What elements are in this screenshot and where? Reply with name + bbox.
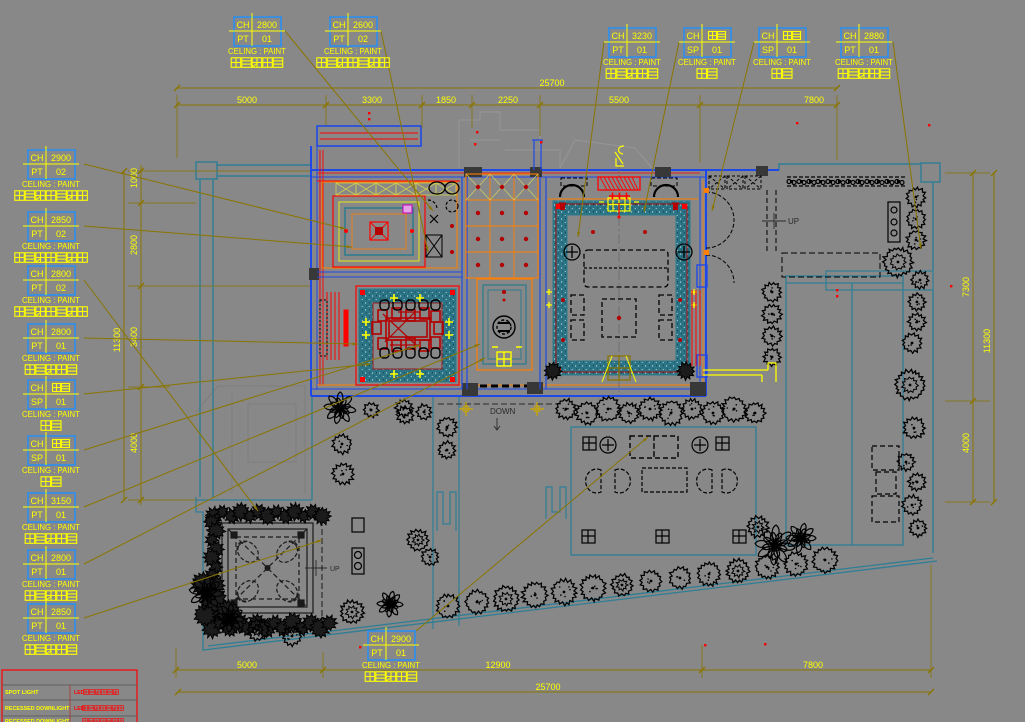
svg-text:7800: 7800 <box>804 95 824 105</box>
callout left5 CHslope <box>22 376 80 430</box>
svg-text:SP: SP <box>31 397 43 407</box>
dining dotted column <box>320 300 327 356</box>
svg-text:02: 02 <box>56 283 66 293</box>
svg-text:3150: 3150 <box>51 496 71 506</box>
callout left7 CH3150 <box>22 489 80 543</box>
interior wall foyer-left <box>462 177 467 389</box>
leader b1 <box>416 437 648 631</box>
svg-text:3300: 3300 <box>362 95 382 105</box>
svg-text:CH: CH <box>31 269 44 279</box>
callout CH2600 top2 <box>317 13 390 67</box>
foyer ceiling grid <box>466 174 538 278</box>
svg-text:01: 01 <box>56 453 66 463</box>
callout CH-slope top4 <box>678 24 736 78</box>
svg-text:UP: UP <box>788 217 799 226</box>
pavilion planter blocks <box>352 518 364 574</box>
garden corner big trees <box>189 576 403 647</box>
dimension top overall 25700 <box>174 78 840 91</box>
living room chandelier yellow <box>599 198 639 211</box>
small square room red dots <box>502 290 506 302</box>
svg-text:01: 01 <box>56 621 66 631</box>
dimension bottom overall 25700 <box>175 682 934 695</box>
svg-text:01: 01 <box>262 34 272 44</box>
callout left6 CHslope <box>22 432 80 486</box>
svg-text:CH: CH <box>371 634 384 644</box>
svg-text:PT: PT <box>31 283 43 293</box>
living room centerline dash-dot <box>618 162 620 392</box>
foyer grid light dots <box>476 185 528 267</box>
svg-text:01: 01 <box>56 510 66 520</box>
right hedge tree column lower <box>895 293 927 538</box>
big leaf tree top-right of lower building <box>755 523 816 565</box>
terrace big tree cluster <box>883 248 929 290</box>
svg-text:RECESSED DOWNLIGHT: RECESSED DOWNLIGHT <box>5 706 70 712</box>
dimension right overall 11300 <box>982 170 997 505</box>
svg-text:CH: CH <box>237 20 250 30</box>
svg-text:SP: SP <box>762 45 774 55</box>
dimension right chain <box>945 170 990 505</box>
courtyard walkway vertical lines <box>433 396 459 629</box>
dimension top chain <box>174 95 840 162</box>
leader t4 <box>644 42 679 212</box>
room A magenta marker <box>403 205 412 213</box>
stairs red lines right of living <box>692 290 700 366</box>
patio furniture middle <box>586 468 738 493</box>
svg-text:2850: 2850 <box>51 215 71 225</box>
room A ceiling decor <box>322 182 457 268</box>
svg-text:CELING : PAINT: CELING : PAINT <box>22 296 80 305</box>
svg-text:CH: CH <box>333 20 346 30</box>
svg-text:11300: 11300 <box>982 329 992 353</box>
svg-text:01: 01 <box>396 648 406 658</box>
svg-text:02: 02 <box>56 229 66 239</box>
svg-text:PT: PT <box>31 510 43 520</box>
svg-text:2800: 2800 <box>257 20 277 30</box>
building top bump <box>317 126 421 146</box>
svg-text:UP: UP <box>330 566 340 573</box>
svg-text:PT: PT <box>612 45 624 55</box>
svg-text:CH: CH <box>612 31 625 41</box>
dining table set <box>372 308 443 351</box>
foyer top X hatch cells <box>466 174 538 200</box>
living room planter pots <box>544 362 694 381</box>
living room entry marks <box>602 356 636 382</box>
callout left3 CH2800 <box>15 262 88 316</box>
svg-text:CELING : PAINT: CELING : PAINT <box>22 410 80 419</box>
terrace dashed path <box>782 253 880 277</box>
svg-text:CELING : PAINT: CELING : PAINT <box>603 58 661 67</box>
dimension left chain <box>128 165 310 505</box>
interior wall roomA-dining <box>317 272 462 277</box>
svg-text:2800: 2800 <box>51 269 71 279</box>
pavilion chairs <box>233 537 302 606</box>
svg-text:12900: 12900 <box>485 660 510 670</box>
callout left9 CH2850 <box>22 600 80 654</box>
living room red cross cluster under fireplace <box>609 193 630 219</box>
svg-text:PT: PT <box>237 34 249 44</box>
lower-right building outline <box>786 276 903 545</box>
faint neighbour outline upper-left steps <box>459 112 652 168</box>
dining room teal band <box>356 286 459 385</box>
lower-right building dashed squares <box>872 446 899 522</box>
svg-text:7800: 7800 <box>803 660 823 670</box>
svg-text:01: 01 <box>869 45 879 55</box>
site porch double wall top-left <box>196 162 311 497</box>
centerline CL symbol <box>615 146 624 166</box>
svg-text:CH: CH <box>687 31 700 41</box>
dimension left overall 11300 <box>112 168 127 503</box>
patio rectangle <box>571 427 756 555</box>
svg-text:01: 01 <box>56 567 66 577</box>
svg-text:CH: CH <box>31 327 44 337</box>
callout left2 CH2850 <box>15 208 88 262</box>
svg-text:PT: PT <box>31 341 43 351</box>
svg-text:02: 02 <box>56 167 66 177</box>
living room red dots <box>561 230 682 342</box>
corridor light dots left of foyer <box>450 224 454 254</box>
svg-text:CELING : PAINT: CELING : PAINT <box>362 661 420 670</box>
svg-text:CH: CH <box>31 153 44 163</box>
room A right X panels <box>426 235 442 257</box>
callout CH2800 top1 <box>228 13 286 67</box>
leader c1 <box>84 164 346 229</box>
garden corner dark shrub masses <box>191 572 241 626</box>
leader c9 <box>84 540 322 618</box>
svg-text:CH: CH <box>31 383 44 393</box>
callout CH3230 top3 <box>603 24 661 78</box>
svg-text:01: 01 <box>637 45 647 55</box>
garden path dashed <box>321 520 323 616</box>
svg-text:PT: PT <box>31 167 43 177</box>
wall stub above foyer <box>532 140 543 170</box>
leader t3 <box>577 42 604 237</box>
svg-text:PT: PT <box>31 229 43 239</box>
svg-text:01: 01 <box>56 341 66 351</box>
garden boundary left and bottom diagonal <box>196 396 937 650</box>
svg-text:5000: 5000 <box>237 95 257 105</box>
svg-text:01: 01 <box>56 397 66 407</box>
svg-text:02: 02 <box>358 34 368 44</box>
svg-text:2800: 2800 <box>51 327 71 337</box>
leader c3 <box>84 280 258 511</box>
living room red lantern icons <box>559 203 679 210</box>
leader t5 <box>712 42 754 211</box>
svg-text:2600: 2600 <box>353 20 373 30</box>
living room teal band <box>553 201 690 375</box>
svg-text:3400: 3400 <box>129 327 139 347</box>
svg-text:CH: CH <box>31 553 44 563</box>
tree row along bottom diagonal <box>437 547 838 618</box>
svg-text:4000: 4000 <box>961 433 971 453</box>
legend table <box>2 670 137 722</box>
garden shrub ring <box>202 503 337 639</box>
svg-text:PT: PT <box>371 648 383 658</box>
faint neighbour outline left of garden <box>196 386 305 494</box>
svg-text:2850: 2850 <box>51 607 71 617</box>
leader c2 <box>84 226 352 248</box>
svg-text:CELING : PAINT: CELING : PAINT <box>22 354 80 363</box>
small square room yellow marks <box>492 347 522 366</box>
svg-text:PT: PT <box>333 34 345 44</box>
scattered red dots <box>359 112 952 648</box>
svg-text:PT: PT <box>31 567 43 577</box>
svg-text:SP: SP <box>31 453 43 463</box>
building top wall <box>311 166 779 177</box>
interior wall foyer-living <box>540 177 546 389</box>
red trim under top wall <box>317 180 460 182</box>
leader t1 <box>285 31 433 211</box>
svg-text:11300: 11300 <box>112 328 122 352</box>
leader c8 <box>84 358 485 564</box>
svg-text:CELING : PAINT: CELING : PAINT <box>22 634 80 643</box>
svg-text:PT: PT <box>31 621 43 631</box>
living room yellow side pairs <box>546 289 697 308</box>
dining left screen <box>327 292 348 360</box>
svg-text:2250: 2250 <box>498 95 518 105</box>
svg-text:PT: PT <box>844 45 856 55</box>
building left wall <box>309 146 323 396</box>
leader t2 <box>381 31 428 252</box>
svg-text:2800: 2800 <box>51 553 71 563</box>
svg-text:CELING : PAINT: CELING : PAINT <box>753 58 811 67</box>
leader c4 <box>84 338 358 345</box>
living room sofa group <box>571 250 672 340</box>
courtyard compass marks <box>459 402 473 416</box>
svg-text:CELING : PAINT: CELING : PAINT <box>324 47 382 56</box>
dining chairs <box>380 300 440 358</box>
room A yellow X hatch row <box>336 183 456 195</box>
svg-text:01: 01 <box>787 45 797 55</box>
svg-text:DOWN: DOWN <box>490 407 516 416</box>
leader c7 <box>84 344 480 507</box>
courtyard dashed path line <box>438 403 562 405</box>
patio stools bottom <box>582 530 746 543</box>
callout left8 CH2800 <box>22 546 80 600</box>
callout left1 CH2900 <box>15 146 88 200</box>
svg-text:CELING : PAINT: CELING : PAINT <box>22 580 80 589</box>
svg-text:CH: CH <box>31 215 44 225</box>
callout CH2900 bottom <box>362 627 420 681</box>
svg-text:CH: CH <box>31 439 44 449</box>
leader t6 <box>893 42 922 249</box>
svg-text:CH: CH <box>31 496 44 506</box>
svg-text:SP: SP <box>687 45 699 55</box>
svg-text:5500: 5500 <box>609 95 629 105</box>
living room side tables <box>564 244 692 260</box>
middle hedge trees <box>762 283 783 367</box>
planter U left walkway <box>437 492 456 531</box>
right terrace boundary <box>779 163 940 553</box>
svg-text:SPOT LIGHT: SPOT LIGHT <box>5 690 39 696</box>
svg-text:CH: CH <box>762 31 775 41</box>
svg-text:01: 01 <box>712 45 722 55</box>
patio furniture top row <box>583 436 729 458</box>
terrace door arcs <box>706 192 734 283</box>
pavilion square <box>222 523 313 613</box>
small square room medallion <box>493 316 515 338</box>
svg-text:CELING : PAINT: CELING : PAINT <box>835 58 893 67</box>
courtyard left trees <box>324 392 457 565</box>
building bottom wall <box>311 382 706 396</box>
svg-text:CELING : PAINT: CELING : PAINT <box>22 180 80 189</box>
svg-text:CELING : PAINT: CELING : PAINT <box>22 466 80 475</box>
callout CH2880 top6 <box>835 24 893 78</box>
svg-text:CELING : PAINT: CELING : PAINT <box>22 242 80 251</box>
dimension bottom chain <box>173 565 934 678</box>
terrace hedge dotted band <box>787 177 905 186</box>
living room top decor <box>548 177 698 199</box>
svg-text:CELING : PAINT: CELING : PAINT <box>22 523 80 532</box>
callout CH-slope top5 <box>753 24 811 78</box>
dining yellow light marks <box>362 294 453 378</box>
svg-text:2900: 2900 <box>51 153 71 163</box>
two big trees right of stools <box>747 516 769 538</box>
small square room border <box>477 279 532 370</box>
svg-text:5000: 5000 <box>237 660 257 670</box>
svg-text:1850: 1850 <box>436 95 456 105</box>
svg-text:CH: CH <box>844 31 857 41</box>
svg-text:2900: 2900 <box>391 634 411 644</box>
terrace hedge X boxes <box>709 176 761 189</box>
room A bathroom fixtures <box>428 182 459 223</box>
svg-text:1000: 1000 <box>129 168 139 188</box>
svg-text:3230: 3230 <box>632 31 652 41</box>
courtyard tree row below building <box>556 396 766 425</box>
callout left4 CH2800 <box>22 320 80 374</box>
yellow path to terrace <box>703 363 776 382</box>
svg-text:LED: LED <box>74 706 85 712</box>
svg-text:2800: 2800 <box>129 235 139 255</box>
planter U near patio <box>546 487 566 519</box>
building right wall <box>697 170 707 396</box>
svg-text:CH: CH <box>31 607 44 617</box>
terrace stair dashed lines <box>767 190 776 252</box>
leader c6 <box>84 345 420 450</box>
svg-text:25700: 25700 <box>535 682 560 692</box>
svg-text:7300: 7300 <box>961 277 971 297</box>
svg-text:2880: 2880 <box>864 31 884 41</box>
svg-text:CELING : PAINT: CELING : PAINT <box>228 47 286 56</box>
svg-text:25700: 25700 <box>539 78 564 88</box>
terrace planter rect <box>888 202 900 242</box>
terrace right tree column upper <box>906 187 926 250</box>
svg-text:CELING : PAINT: CELING : PAINT <box>678 58 736 67</box>
leader c5 <box>84 363 371 394</box>
